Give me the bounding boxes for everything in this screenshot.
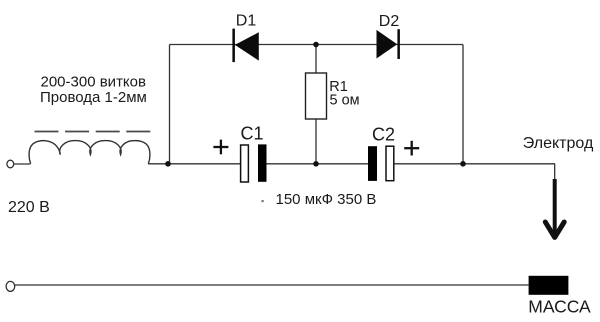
wire corner down to electrode arrow — [554, 164, 556, 179]
terminal input bottom — [6, 281, 15, 291]
inductor L1 winding — [29, 141, 150, 164]
electrode arrow — [545, 179, 564, 237]
diode D1 — [232, 29, 258, 63]
svg-text:C2: C2 — [372, 125, 395, 145]
inductor core dashed line — [35, 131, 151, 133]
terminal input top — [7, 160, 14, 168]
wire R1 branch vertical — [315, 45, 317, 164]
wire top bus from left corner through D1 D2 to right corner — [170, 44, 464, 46]
diode D2 — [377, 29, 400, 59]
wire C1 to C2 — [267, 163, 369, 165]
svg-text:МАССА: МАССА — [528, 296, 591, 316]
svg-text:D1: D1 — [236, 12, 257, 29]
label capacitor value — [262, 200, 264, 202]
node junction coil output — [165, 161, 171, 167]
svg-text:220 В: 220 В — [8, 199, 50, 216]
capacitor C2 — [368, 146, 394, 181]
svg-text:Электрод: Электрод — [523, 135, 594, 152]
svg-text:C1: C1 — [241, 124, 264, 144]
svg-text:D2: D2 — [379, 13, 400, 30]
svg-text:5 ом: 5 ом — [330, 93, 360, 109]
wire C2 to electrode corner — [394, 163, 555, 165]
node junction bottom of R1 — [313, 161, 319, 167]
wire from input terminal to coil — [14, 163, 31, 165]
svg-text:Провода 1-2мм: Провода 1-2мм — [40, 89, 147, 106]
capacitor C1 — [241, 144, 267, 182]
wire bottom return — [14, 284, 529, 286]
wire left vertical drop to transformer node — [169, 45, 171, 164]
plus sign C1 — [213, 140, 228, 155]
node junction right bus — [460, 161, 466, 167]
wire right vertical drop to output node — [462, 45, 464, 164]
electrode MASSA plate — [529, 276, 569, 295]
resistor R1 — [306, 73, 327, 119]
plus sign C2 — [404, 141, 419, 156]
wire coil to C1 — [148, 163, 241, 165]
node junction top of R1 — [313, 42, 319, 48]
svg-text:150 мкФ 350 В: 150 мкФ 350 В — [276, 191, 377, 208]
